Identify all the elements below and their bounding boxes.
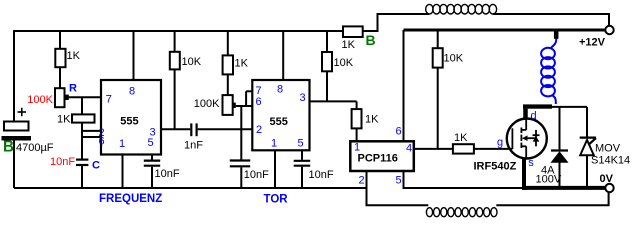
svg-text:1K: 1K [365,114,379,126]
svg-text:10nF: 10nF [50,156,75,168]
svg-text:6: 6 [256,96,262,108]
svg-text:7: 7 [106,93,112,105]
svg-text:S14K14: S14K14 [591,155,630,167]
svg-text:1K: 1K [235,58,249,70]
svg-text:R: R [69,83,77,95]
svg-text:1: 1 [354,142,360,154]
svg-text:1K: 1K [454,132,468,144]
svg-text:555: 555 [270,116,288,128]
svg-text:5: 5 [396,175,402,187]
svg-text:4700µF: 4700µF [16,142,54,154]
svg-text:100V: 100V [536,174,562,186]
svg-text:5: 5 [298,138,304,150]
svg-text:s: s [528,157,534,169]
svg-text:10K: 10K [182,56,202,68]
svg-text:B: B [3,139,14,156]
svg-text:C: C [92,160,100,172]
svg-text:10K: 10K [334,57,354,69]
svg-text:d: d [531,110,537,122]
svg-text:100K: 100K [194,98,220,110]
svg-text:g: g [497,137,503,149]
svg-text:PCP116: PCP116 [358,153,398,165]
svg-text:100K: 100K [27,94,53,106]
svg-text:1K: 1K [67,50,81,62]
svg-text:8: 8 [129,86,135,98]
svg-text:10nF: 10nF [155,168,180,180]
svg-text:+12V: +12V [579,37,606,49]
svg-text:1nF: 1nF [184,140,203,152]
svg-text:IRF540Z: IRF540Z [474,161,517,173]
svg-text:10K: 10K [444,53,464,65]
svg-text:3: 3 [300,92,306,104]
svg-text:1K: 1K [342,39,356,51]
svg-text:8: 8 [277,84,283,96]
svg-text:6: 6 [99,136,105,148]
svg-text:2: 2 [256,124,262,136]
svg-text:555: 555 [120,115,138,127]
svg-text:10nF: 10nF [309,169,334,181]
svg-text:TOR: TOR [264,194,289,206]
svg-text:10nF: 10nF [244,169,269,181]
svg-text:4: 4 [406,143,412,155]
svg-text:5: 5 [148,137,154,149]
svg-text:2: 2 [359,175,365,187]
svg-text:FREQUENZ: FREQUENZ [99,193,162,205]
svg-text:MOV: MOV [595,143,621,155]
svg-text:1: 1 [271,138,277,150]
svg-text:1K: 1K [57,114,71,126]
svg-text:1: 1 [119,138,125,150]
svg-text:0V: 0V [600,173,614,185]
svg-text:6: 6 [396,126,402,138]
svg-text:B: B [366,32,376,48]
